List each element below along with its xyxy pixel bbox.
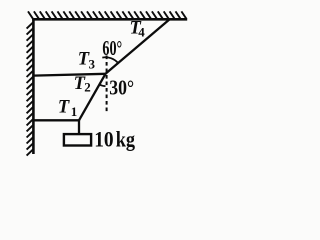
rope T3 — [33, 74, 105, 76]
60 degree arc — [102, 57, 118, 63]
svg-text:3: 3 — [89, 57, 96, 72]
ceiling hatching — [28, 11, 186, 18]
svg-text:kg: kg — [116, 127, 135, 152]
svg-text:30°: 30° — [109, 75, 134, 99]
wall line — [32, 18, 35, 154]
rope T1 — [33, 119, 79, 121]
svg-text:10: 10 — [94, 127, 113, 152]
svg-text:2: 2 — [84, 79, 91, 94]
svg-text:4: 4 — [138, 24, 145, 39]
svg-text:T: T — [58, 97, 70, 117]
dashed vertical reference line — [106, 56, 108, 114]
rope to mass — [78, 120, 80, 134]
svg-text:1: 1 — [71, 104, 78, 119]
mass block 10 kg — [64, 134, 91, 145]
rope T4 — [106, 19, 170, 73]
svg-text:60°: 60° — [102, 38, 122, 60]
30 degree arc — [99, 85, 105, 87]
rope T2 — [79, 74, 106, 121]
ceiling line — [32, 18, 187, 21]
wall hatching — [27, 22, 33, 155]
